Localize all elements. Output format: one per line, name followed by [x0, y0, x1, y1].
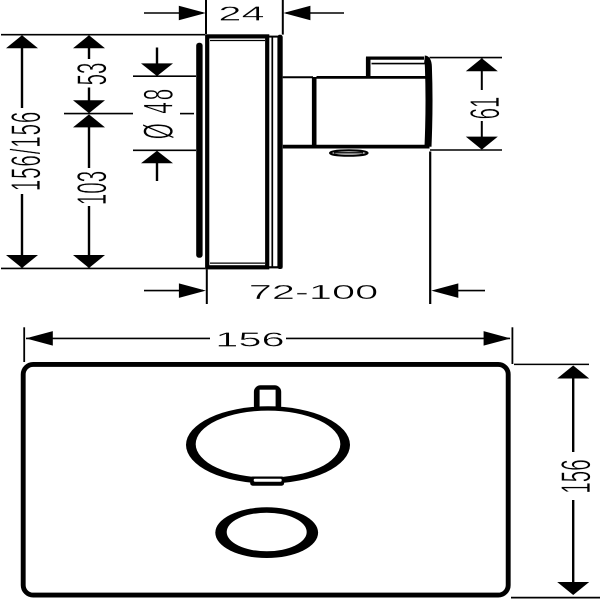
- dim 156/156 line lower: [21, 194, 23, 268]
- escutcheon inner top line: [210, 40, 265, 42]
- dim 156 height arrow down: [557, 582, 589, 595]
- svg-text:156: 156: [215, 328, 284, 351]
- dim 53 arrow down: [73, 100, 105, 113]
- dim 61 arrow down: [466, 137, 498, 150]
- svg-text:Ø 48: Ø 48: [136, 87, 183, 139]
- valve body bottom edge: [283, 145, 430, 149]
- thermostat knob ring inner: [196, 411, 341, 478]
- dim 24 leader right: [286, 12, 344, 14]
- knob bottom clip: [250, 477, 284, 486]
- dim 156/156 extension line top: [1, 34, 205, 36]
- knob tab inner: [260, 390, 276, 414]
- dim 156 width extension line right: [511, 327, 513, 364]
- valve body right edge: [425, 59, 430, 147]
- svg-text:53: 53: [69, 63, 116, 86]
- escutcheon inner bottom line: [210, 262, 265, 264]
- dim 61 extension line top: [430, 57, 503, 59]
- dim 72-100 leader left: [144, 290, 203, 292]
- dim 156 height line upper: [572, 367, 574, 453]
- dim 61 arrow up: [466, 58, 498, 71]
- dim 156/156 arrow up: [6, 35, 38, 48]
- dim 156 width arrow right: [484, 331, 511, 346]
- dim 156 width line right: [286, 337, 510, 339]
- escutcheon gap line: [271, 37, 273, 268]
- escutcheon connector bottom line: [267, 266, 283, 268]
- wall flange bar: [196, 43, 202, 258]
- dim 61 line lower: [481, 121, 483, 149]
- handle cap inner line: [372, 63, 425, 65]
- dim 24 leader left: [144, 12, 203, 14]
- dim 156 width extension line left: [23, 327, 25, 362]
- thermostat knob ring outer: [186, 406, 350, 483]
- dim 24 extension line right: [282, 0, 284, 35]
- handle bottom oval: [330, 150, 367, 155]
- escutcheon front strip: [277, 35, 282, 269]
- dim 103 line upper: [88, 127, 90, 168]
- cartridge center line left segment: [64, 113, 133, 115]
- select button ring outer: [215, 507, 318, 558]
- dim 48 extension line bottom: [133, 149, 196, 151]
- valve body left edge: [312, 77, 317, 147]
- dim 53 line lower: [88, 88, 90, 101]
- dim 103 line lower: [88, 206, 90, 268]
- valve body top edge: [317, 76, 426, 79]
- dim 156 height arrow up: [557, 366, 589, 379]
- dim 48 extension line top: [133, 75, 196, 77]
- dim 72-100 extension line left: [206, 270, 208, 305]
- dim 53 line upper: [88, 36, 90, 59]
- dim 156 height line lower: [572, 500, 574, 594]
- svg-text:72-100: 72-100: [249, 281, 378, 304]
- knob bottom clip slot: [254, 479, 282, 482]
- dim 61 extension line bottom: [430, 149, 502, 151]
- handle cap top edge: [366, 56, 424, 59]
- handle bottom oval line: [334, 152, 363, 154]
- valve connector top line: [283, 76, 313, 78]
- dim 24 extension line left: [205, 0, 207, 34]
- dim 156/156 line upper: [21, 36, 23, 108]
- dim 156/156 extension line bottom: [1, 267, 205, 269]
- dim 72-100 extension line right: [429, 152, 431, 305]
- dim 156 width line left: [26, 337, 210, 339]
- escutcheon connector top line: [267, 36, 278, 38]
- select button ring inner: [227, 513, 307, 552]
- dim 24 arrow left: [179, 6, 206, 21]
- dim 48 leader top: [156, 48, 158, 64]
- dim 24 arrow right: [283, 6, 310, 21]
- dim 48 arrow up: [141, 151, 173, 164]
- dim 103 arrow up: [73, 114, 105, 127]
- dim 48 arrow down: [141, 63, 173, 76]
- dim 156 height extension line top: [514, 363, 589, 365]
- dim 72-100 arrow left: [179, 283, 206, 298]
- dim 53 arrow up: [73, 35, 105, 48]
- cartridge center line right segment: [180, 113, 194, 115]
- svg-text:24: 24: [218, 2, 264, 25]
- svg-text:61: 61: [462, 97, 509, 120]
- dim 156/156 arrow down: [6, 255, 38, 268]
- svg-text:103: 103: [69, 171, 116, 205]
- dim 72-100 leader right: [457, 290, 485, 292]
- faceplate front view: [23, 364, 508, 595]
- svg-text:156/156: 156/156: [3, 111, 50, 191]
- dim 156 width arrow left: [26, 331, 53, 346]
- dim 103 arrow down: [73, 255, 105, 268]
- handle cap left edge: [366, 58, 371, 78]
- svg-text:156: 156: [553, 459, 600, 493]
- dim 61 line upper: [481, 59, 483, 91]
- dim 156 height extension line bottom: [511, 597, 600, 599]
- dim 48 leader bottom: [156, 163, 158, 181]
- knob tab outer: [254, 385, 281, 412]
- dim 72-100 arrow right: [431, 283, 458, 298]
- escutcheon box outline: [207, 36, 267, 267]
